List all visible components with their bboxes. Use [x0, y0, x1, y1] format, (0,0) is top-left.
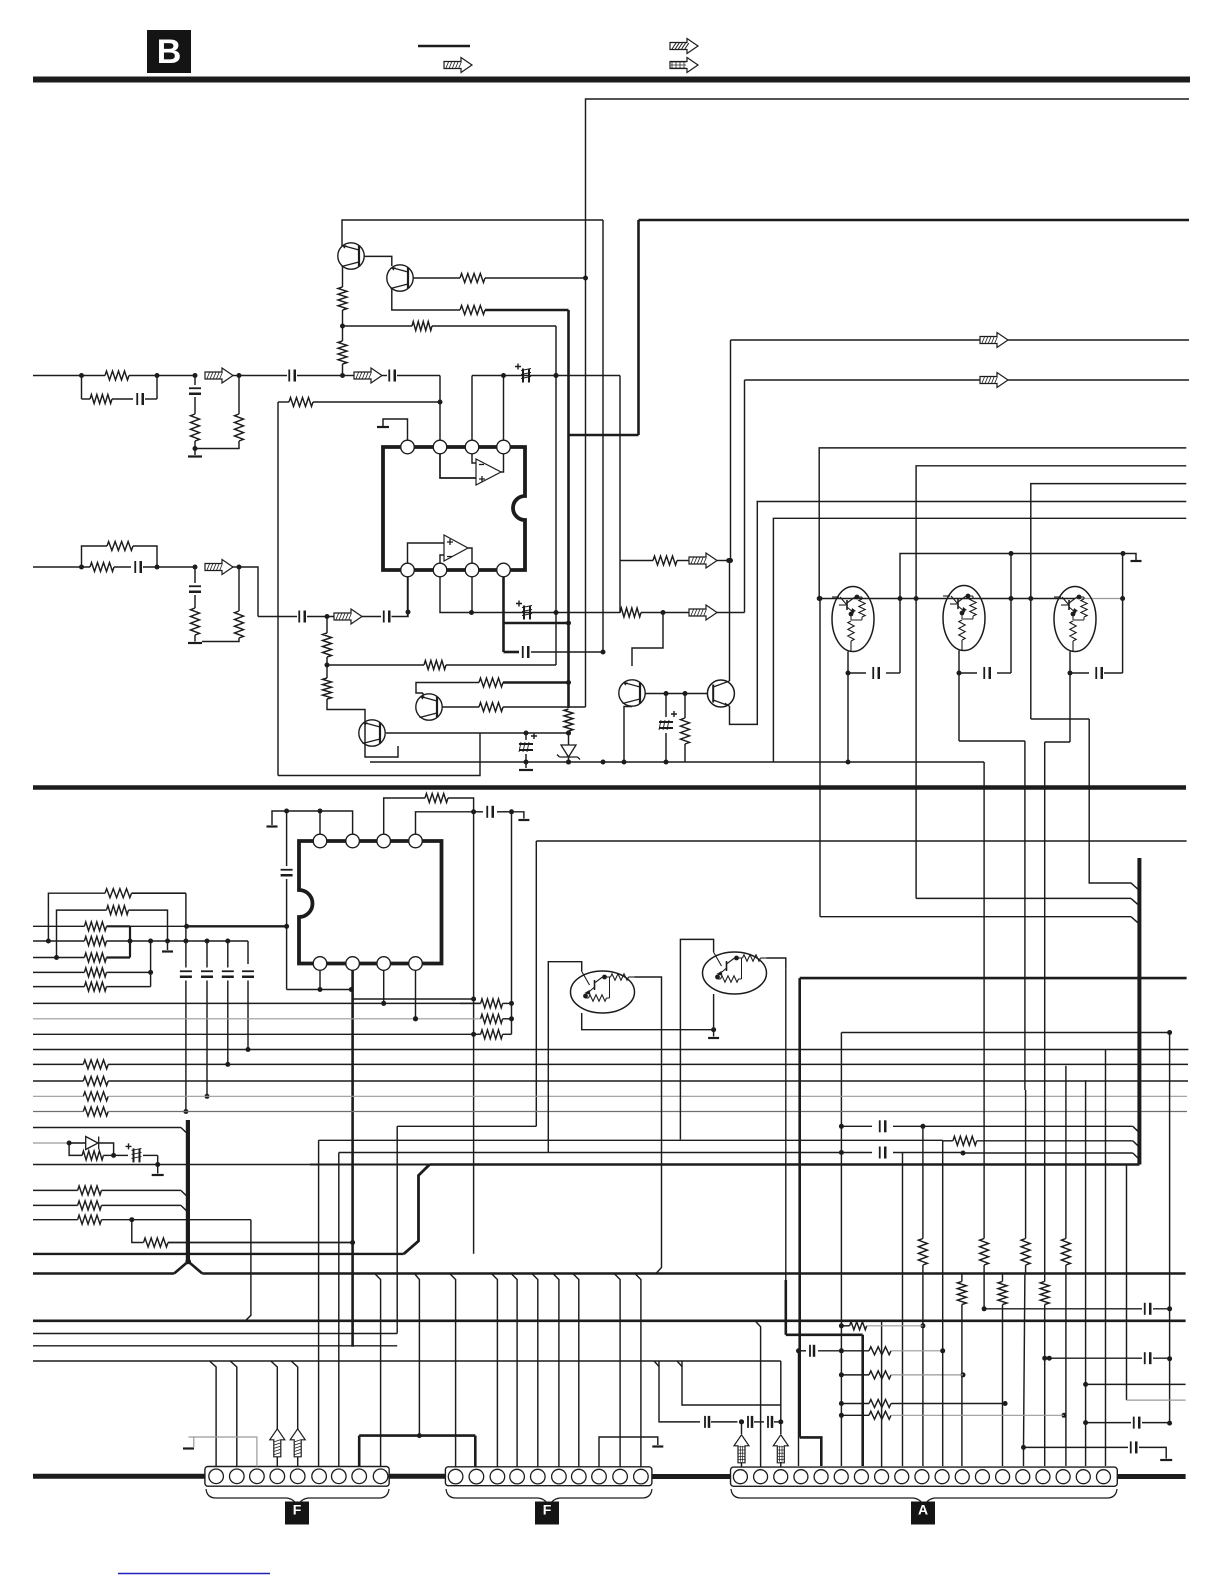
F1 pin3 ground — [194, 1437, 257, 1467]
wire Q1-Q2 link — [364, 256, 392, 266]
dual transistor T1 — [832, 587, 874, 652]
vertical 1169 — [1169, 1033, 1171, 1424]
wire U2 pin4 bottom — [415, 971, 417, 1019]
F2 pin8 ground — [599, 1437, 658, 1467]
resistor ladder lower — [961, 1274, 963, 1282]
ground T5 — [713, 1030, 715, 1037]
row 986 resistor R-G — [33, 986, 84, 988]
cap rail 989 — [287, 989, 353, 991]
svg-text:B: B — [157, 33, 182, 71]
capacitor C1b — [112, 398, 133, 400]
wire input row1 — [33, 375, 105, 377]
thick vertical x=568.5 — [567, 310, 570, 708]
row 926 continuation — [130, 925, 187, 927]
row 1358 right segment — [1045, 1357, 1142, 1359]
thick row 1254 — [33, 1253, 404, 1255]
row 1447 ground — [1024, 1446, 1129, 1448]
blue line bottom — [118, 1573, 270, 1575]
trunk right vertical — [1137, 858, 1141, 1165]
wire to op-amp input — [440, 376, 476, 479]
vertical 511 resistor chain — [511, 812, 513, 1019]
ground 811 — [512, 812, 524, 819]
wire Q3 emitter — [624, 707, 632, 763]
vertical 473 down — [473, 812, 475, 1254]
row 518.3 — [773, 518, 1186, 762]
resistor Q5 row 682 — [416, 683, 479, 694]
row 1400 grey — [1126, 1165, 1128, 1401]
W1 row 1422 — [659, 1361, 700, 1422]
resistor R-798 — [425, 794, 448, 803]
vertical pin A1 — [741, 1422, 743, 1434]
row 1403 resistor — [841, 1403, 869, 1405]
ground row3 — [188, 642, 202, 644]
capacitor C3a — [114, 566, 131, 568]
resistor R-Q2a — [460, 274, 485, 283]
vertical 942 pin A11 — [942, 1141, 944, 1466]
vertical 820 — [819, 599, 821, 917]
resistor R3c vertical — [191, 608, 200, 635]
wire to Q6 — [327, 699, 398, 757]
diode cluster row 1143 — [33, 1142, 86, 1144]
IC U2 box — [299, 841, 442, 964]
svg-text:F: F — [293, 1502, 302, 1518]
wire Q4 collector up — [729, 561, 731, 682]
node row1 x=195 — [193, 373, 198, 378]
vertical 1024 upper — [1024, 741, 1026, 1090]
thick vertical 801 to A5 — [798, 978, 801, 1437]
branch 1219 down — [245, 1220, 251, 1321]
U1 pin circles top — [401, 440, 415, 454]
op-amp IC U1 box — [383, 447, 525, 570]
wire vertical x=603 — [602, 220, 604, 652]
wire input row3 — [33, 566, 90, 568]
U2 pin circles top — [313, 834, 327, 848]
row 1374 resistor — [841, 1374, 869, 1376]
F1 pin6 net row 1140 — [318, 1140, 320, 1466]
row 1350 cap resistor — [799, 1350, 807, 1352]
vertical 881 to A8 — [881, 1321, 883, 1466]
bus row 1111 grey resistor — [33, 1111, 83, 1113]
thick row 1164 right — [430, 1163, 1140, 1166]
legend bar — [418, 45, 470, 47]
wire +cap row top — [472, 375, 620, 377]
thick branch y=623 — [504, 622, 569, 625]
resistor R-568 vertical — [564, 709, 573, 731]
bus row 1003 — [33, 1002, 481, 1004]
row 1421 right — [1086, 1422, 1131, 1424]
U2 top rail ground — [272, 811, 353, 834]
ground 1166 — [1160, 1459, 1172, 1461]
A pin2 from row 1319 — [755, 1321, 761, 1467]
T4 bottom exit — [582, 1013, 714, 1030]
resistor Q5 collector row 707 — [443, 706, 480, 708]
vertical 922 lower — [922, 1274, 924, 1467]
row 999 — [353, 998, 474, 1000]
wire U1 pin3 bottom — [471, 577, 473, 613]
bus row 1019 grey — [33, 1018, 481, 1020]
wire Q1 top y=220 — [342, 220, 603, 246]
label F2 — [535, 1502, 559, 1525]
A pin8 vertical stub — [881, 1466, 883, 1467]
up arrow A pin3 — [773, 1435, 788, 1463]
A1 input wires — [472, 454, 476, 463]
row 1152 to trunk — [963, 1152, 1133, 1154]
vertical 419 down — [415, 1274, 420, 1436]
T2 jog down — [959, 740, 1025, 742]
row 1205 resistor — [33, 1204, 78, 1206]
T4 right output — [635, 977, 662, 1274]
rows into right trunk 899 917 — [916, 897, 1131, 899]
op-amp A2 — [444, 535, 468, 561]
wire corner x=730 row340 — [730, 340, 732, 561]
wire Q3 base bend — [632, 613, 663, 667]
connector A pins — [733, 1470, 747, 1484]
ground row553 — [1131, 554, 1136, 561]
arrow mixer row 612 — [689, 605, 717, 620]
up arrow F1 pin5 — [290, 1429, 305, 1457]
resistor R3e vertical — [323, 633, 332, 657]
row 941 resistor R-D — [33, 940, 84, 942]
row483 jog down — [1031, 718, 1089, 720]
row 1127 right to trunk — [923, 1125, 1133, 1127]
wire top loop y=99 — [586, 99, 1190, 278]
row 553.5 — [900, 554, 1131, 674]
arrow long row 380 — [745, 379, 981, 381]
wire U1 pin2 bottom — [440, 577, 471, 613]
thick wire row 310 — [485, 309, 569, 312]
op-amp A1 — [476, 459, 501, 485]
node row3 x=195 — [193, 565, 198, 570]
bus row 1033 left — [33, 1033, 481, 1035]
wire Q2 emitter to row 310 — [392, 289, 460, 311]
vertical 1065 to A17 — [1065, 1066, 1067, 1239]
+capacitor diode — [114, 1154, 128, 1156]
row 1190 resistor — [33, 1189, 78, 1191]
F1 pin jogs from row 1361 — [210, 1361, 217, 1467]
bus row 1033 right — [841, 1032, 1169, 1034]
resistor R-Q1a vertical — [338, 287, 347, 310]
resistor R1d vertical — [235, 414, 244, 441]
T3 jog down — [1045, 741, 1070, 743]
row 501.5 — [757, 501, 1187, 503]
bus row 1081 resistor — [33, 1080, 83, 1082]
capacitor C1e — [288, 370, 290, 382]
thick F1 pin8 net — [358, 1436, 361, 1467]
arrow row3b — [334, 609, 362, 624]
thick row 1273 right — [202, 1272, 1185, 1275]
+capacitor top — [522, 369, 524, 383]
capacitor C1f — [382, 375, 387, 377]
vertical 1002 continue — [1002, 1305, 1004, 1467]
jog 1089 to trunk — [1089, 719, 1139, 891]
page top rule — [33, 77, 1190, 83]
legend arrow 2 — [670, 39, 698, 54]
vertical 1085 to A18 — [1085, 1080, 1087, 1466]
wire vertical x=620 — [619, 376, 621, 614]
transistor Q5 — [416, 694, 442, 720]
resistor R-984 vertical — [980, 1239, 989, 1266]
capacitor bank vertical 207 — [206, 941, 208, 968]
wire vertical x=278 — [277, 402, 279, 776]
trunk chevron — [174, 1262, 202, 1274]
thick U loop — [129, 926, 131, 957]
resistor R-Q34 — [684, 693, 686, 718]
T5 bottom — [713, 994, 715, 1030]
thick vertical 784 — [785, 969, 787, 1280]
A2 input wires — [408, 543, 445, 563]
capacitor C3f — [362, 616, 381, 618]
dual transistor T4 — [548, 962, 581, 1153]
resistor R-665 — [424, 661, 446, 670]
wire corner x=744 row380 — [744, 380, 746, 613]
arrow mixer row 560 — [689, 553, 717, 568]
thick row 682 — [503, 681, 569, 684]
thick row 1273 left — [33, 1272, 174, 1275]
parallel branch row1 — [81, 376, 83, 400]
resistor R-1242 — [132, 1220, 144, 1243]
wire U2 pin3 bottom — [383, 971, 385, 1004]
ground 526 — [519, 769, 533, 771]
thick U2 pin2 bottom — [351, 971, 354, 1347]
row 1415 resistor — [841, 1414, 869, 1416]
transistor Q4 — [707, 680, 734, 707]
resistor R-Q2b — [460, 306, 485, 315]
capacitor C1c — [189, 387, 201, 389]
row 598 ovals — [819, 598, 1075, 600]
U2 pin4 rail — [416, 812, 474, 834]
vertical 150 — [150, 941, 152, 987]
U2 pin3 top loop — [384, 798, 425, 834]
bottom thick bus — [33, 1474, 205, 1479]
row 957 resistor R-E — [33, 957, 84, 959]
transistor Q6 — [359, 720, 385, 746]
wire row3 jog — [239, 567, 258, 617]
vertical 798 pin A4 — [798, 1351, 800, 1466]
T5 right output — [767, 958, 786, 969]
resistor R1a — [105, 371, 129, 380]
connector F2 box — [445, 1467, 652, 1486]
capacitor C-1152 — [841, 1152, 872, 1154]
thick vertical x=638.5 — [637, 220, 640, 435]
vertical 1105 to A19 — [1105, 1050, 1107, 1467]
row 941 corner down — [247, 941, 249, 964]
U2 pin circles bottom — [313, 957, 327, 971]
wire Q5 top — [422, 693, 424, 697]
cap row 1126 — [841, 1125, 872, 1127]
wire row375 to U1 pin3 — [471, 376, 473, 441]
wire +cap row y=612.5 — [472, 612, 621, 614]
wire Q3-Q4 — [646, 693, 708, 695]
row 465.8 — [916, 466, 1186, 899]
resistor R-1034 — [481, 1030, 503, 1039]
thick row 1319 — [33, 1320, 1186, 1323]
wire vertical x=556 — [555, 326, 557, 665]
bus row 1127 into trunk — [33, 1127, 181, 1129]
label B box — [147, 30, 191, 73]
vertical 536 down — [535, 841, 537, 1126]
row 1141 resistor — [943, 1140, 953, 1142]
resistor R3f vertical — [323, 678, 332, 699]
arrow row1b — [354, 368, 382, 383]
row 926 resistor R-C — [33, 925, 84, 927]
ground R-B — [162, 950, 173, 952]
row 447.9 — [819, 448, 1186, 598]
F2 pin feeds from bus 1273 — [450, 1274, 456, 1467]
arrow row1 — [205, 368, 233, 383]
row 910 resistor R-B — [57, 910, 107, 957]
capacitor bank vertical 248 — [242, 970, 254, 972]
T1 cap net — [847, 652, 849, 763]
divider rule — [33, 785, 1186, 790]
capacitor C-286 — [286, 811, 288, 866]
resistor ladder upper — [918, 1239, 927, 1266]
transistor Q3 — [619, 680, 645, 706]
wire cap to IC pin1 — [392, 576, 409, 617]
capacitor C-1447 — [1130, 1441, 1132, 1453]
resistor R-diode — [69, 1143, 82, 1155]
resistor R-1019 — [481, 1014, 503, 1023]
resistor R-1003 — [481, 999, 503, 1008]
row 1333 — [33, 1333, 397, 1335]
row 1126 link — [397, 1125, 536, 1127]
legend arrow 3 — [670, 58, 698, 73]
dual transistor T2 — [943, 586, 985, 651]
svg-text:F: F — [543, 1502, 552, 1518]
label F1 — [285, 1502, 309, 1525]
transistor Q1 — [338, 243, 364, 269]
connector F2 pins — [448, 1469, 463, 1484]
capacitor C-811 — [474, 811, 483, 813]
row 1347 — [33, 1345, 397, 1347]
U1 pin circles bottom — [401, 563, 415, 577]
label A — [911, 1502, 935, 1525]
ground row1 — [194, 449, 196, 456]
F1 pin7 net row 1152 — [338, 1153, 340, 1467]
trunk left vertical — [186, 1120, 190, 1261]
A1 output wire — [501, 454, 504, 472]
resistor R-612 mixer — [620, 608, 641, 617]
resistor R1b — [90, 395, 112, 404]
row 1308 — [984, 1308, 1142, 1310]
thick vertical 862 to A7 — [861, 1335, 864, 1466]
connector F1 box — [205, 1467, 389, 1487]
row 1384 — [1086, 1383, 1186, 1385]
svg-text:A: A — [918, 1502, 928, 1518]
thick jog y=435 — [569, 434, 639, 437]
+capacitor row612 — [523, 606, 525, 620]
row 1334 thick part — [786, 1334, 863, 1337]
resistor R-fb2 row 402 — [278, 401, 289, 403]
resistor R3d vertical — [235, 611, 244, 638]
T3 cap net — [1069, 652, 1071, 743]
connector F1 pins — [209, 1469, 224, 1484]
T2 cap net — [958, 651, 960, 742]
row 972 resistor R-F — [33, 971, 84, 973]
wire base node x=344 — [342, 310, 344, 341]
resistor R-fb row 326 — [343, 325, 413, 327]
dual transistor T5 — [680, 939, 713, 1139]
row 483.6 — [1031, 484, 1187, 719]
capacitor C3c — [189, 585, 201, 587]
vertical 780 pin A3 — [780, 1361, 782, 1405]
row 893 resistor R-A — [48, 893, 105, 941]
thick row 978 — [800, 977, 1187, 980]
up arrow A pin1 — [734, 1435, 749, 1463]
W2 row 1405 — [682, 1361, 781, 1405]
brace A — [731, 1489, 1117, 1508]
arrow row3 — [205, 560, 233, 575]
thick wire U1 pin4 — [502, 577, 505, 652]
row 1361 — [33, 1360, 781, 1362]
wire U1 pin1 bottom — [407, 577, 409, 617]
capacitor C-1421 — [1133, 1417, 1135, 1429]
thick row 926 to U2 — [187, 925, 287, 927]
+capacitor 526 — [525, 733, 527, 740]
diode D1 — [86, 1137, 99, 1150]
bus row 1049 — [33, 1049, 1188, 1051]
rail descent 984 — [983, 762, 985, 1239]
vertical 397 down — [396, 1126, 398, 1333]
vertical 961 continue — [961, 1305, 963, 1467]
F1 pin9 from bus — [375, 1274, 381, 1467]
wire long vertical x=585.5 — [585, 278, 587, 707]
row 1325 resistor — [841, 1325, 849, 1327]
wire U2 pin1 bottom — [319, 971, 321, 990]
resistor R-560 — [653, 556, 677, 565]
row 841 crossing note — [535, 840, 537, 842]
vertical 1044 continue — [1044, 742, 1046, 1274]
legend arrow 1 — [444, 58, 472, 73]
capacitor bank vertical 227 — [227, 941, 229, 968]
arrow long row 340 — [731, 339, 981, 341]
resistor R1c vertical — [191, 414, 200, 441]
row 841 right — [536, 840, 1186, 842]
row 1219 resistor — [33, 1219, 78, 1221]
ground above U1 — [383, 419, 408, 440]
wire row 733 — [480, 732, 569, 734]
ground diode — [157, 1165, 159, 1174]
transistor Q2 — [387, 265, 413, 291]
brace F2 — [446, 1489, 652, 1508]
capacitor bank vertical 185 — [185, 893, 187, 967]
resistor R-Q1b vertical — [338, 341, 347, 364]
wire x=480 jog — [278, 733, 480, 776]
vertical 1044 to pin16 — [1044, 1358, 1046, 1466]
vertical 1024 lower to A15 — [1024, 1274, 1025, 1448]
resistor R3b — [107, 542, 133, 551]
vertical 902 to A9 — [902, 1153, 904, 1467]
bus row 1096 grey resistor — [33, 1095, 83, 1097]
wire Q2 collector row y=278 — [414, 277, 461, 279]
thick row 1164 left thin — [33, 1164, 310, 1166]
+capacitor Q34 — [665, 693, 667, 717]
thick row y=220 right — [639, 219, 1190, 222]
thick branch y=652 with cap — [504, 651, 520, 654]
mixer row 560 — [620, 560, 653, 562]
wire Q6 emitter — [386, 732, 480, 734]
parallel branch row3 — [82, 546, 108, 567]
zener D-568 — [557, 745, 580, 760]
vertical 841 to pin A6 — [840, 1033, 842, 1467]
rail y=762 — [370, 761, 984, 763]
capacitor C-1358 — [1144, 1352, 1146, 1364]
A2 output wire — [468, 548, 472, 563]
jogs from row 1361 — [654, 1361, 659, 1367]
wire row1 to cap — [239, 375, 287, 377]
capacitor C3e — [258, 616, 297, 618]
bus row 1064 resistor — [33, 1063, 83, 1065]
wire row 665 — [326, 657, 328, 678]
